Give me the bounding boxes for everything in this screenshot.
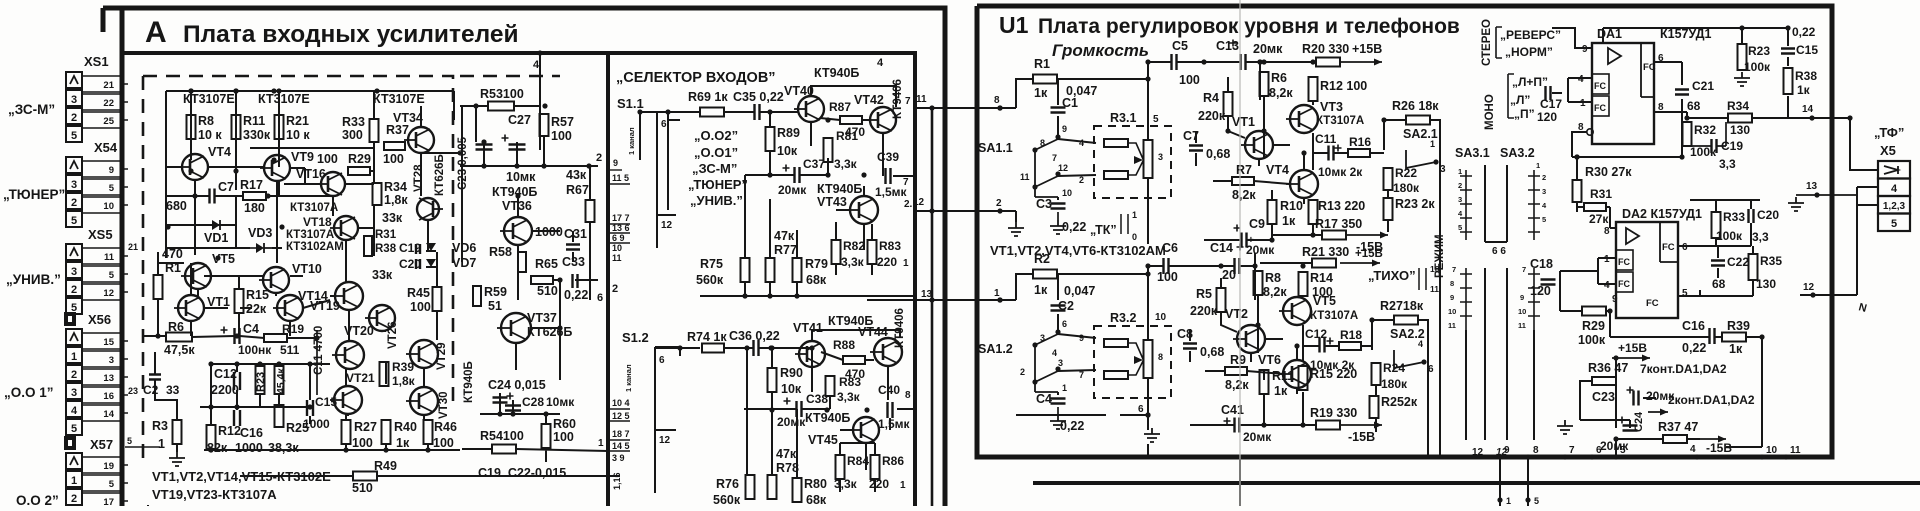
label KT940B VT36 xyxy=(492,185,537,213)
label KT3102AM xyxy=(286,241,344,253)
svg-text:4: 4 xyxy=(533,59,540,71)
resistor R21 xyxy=(275,88,311,142)
svg-text:19: 19 xyxy=(103,461,114,472)
svg-text:R14: R14 xyxy=(1310,271,1333,285)
wire R34 row xyxy=(1603,28,1850,118)
svg-text:R78: R78 xyxy=(776,461,799,475)
wire selector mid xyxy=(745,112,915,250)
squiggle N xyxy=(1857,301,1868,315)
resistor R89 10k xyxy=(766,126,800,158)
capacitor C8 U1 xyxy=(1177,327,1224,359)
capacitor C15b xyxy=(1781,25,1818,57)
svg-text:С11 4700: С11 4700 xyxy=(313,326,325,375)
capacitor C7 U1 xyxy=(1183,129,1230,161)
note transistors list A xyxy=(152,469,331,484)
svg-text:С20: С20 xyxy=(399,257,421,271)
wire R69 C35 row xyxy=(640,112,798,160)
selector pin rows top xyxy=(608,158,630,263)
svg-text:R8: R8 xyxy=(1265,271,1281,285)
svg-text:„ЗС-М”: „ЗС-М” xyxy=(8,102,55,117)
svg-text:R20 330: R20 330 xyxy=(1302,42,1349,56)
svg-text:Х54: Х54 xyxy=(94,140,118,155)
svg-text:С24 0,015: С24 0,015 xyxy=(488,378,546,392)
switch SA1.1 label xyxy=(978,141,1013,155)
svg-text:VD1: VD1 xyxy=(204,231,228,245)
svg-text:12: 12 xyxy=(1472,447,1484,458)
svg-text:VT30: VT30 xyxy=(438,392,450,420)
svg-text:120: 120 xyxy=(1530,284,1551,298)
board A title xyxy=(145,16,519,49)
svg-text:2200: 2200 xyxy=(211,383,239,397)
svg-text:4: 4 xyxy=(1891,183,1898,195)
pin 6 xyxy=(597,292,603,304)
svg-text:С2: С2 xyxy=(143,383,159,397)
svg-text:FC: FC xyxy=(1646,298,1659,309)
svg-text:12: 12 xyxy=(1803,282,1815,293)
svg-text:1: 1 xyxy=(1604,254,1610,265)
wire VT9 base rail xyxy=(166,139,374,184)
svg-text:FC: FC xyxy=(1594,81,1606,91)
svg-text:10к: 10к xyxy=(781,382,802,396)
svg-text:11: 11 xyxy=(1518,321,1526,330)
transistor VT9 xyxy=(260,150,314,181)
svg-text:7: 7 xyxy=(1052,153,1057,163)
svg-text:3,3: 3,3 xyxy=(1752,230,1769,244)
svg-text:4: 4 xyxy=(1578,74,1584,85)
arrow -15V 2 xyxy=(1340,422,1382,445)
svg-text:КТ3102АМ: КТ3102АМ xyxy=(286,241,344,253)
svg-text:1 канал: 1 канал xyxy=(627,127,636,155)
switch S1.1 body xyxy=(627,112,680,248)
resistor R29b 100k xyxy=(1578,307,1606,348)
connector XS5 xyxy=(66,227,128,314)
svg-text:„ЗС-М”: „ЗС-М” xyxy=(692,161,737,176)
svg-text:R34: R34 xyxy=(1727,99,1749,113)
wire VT6 area xyxy=(1205,346,1372,394)
svg-text:0,22: 0,22 xyxy=(1062,220,1086,234)
svg-text:„СЕЛЕКТОР ВХОДОВ”: „СЕЛЕКТОР ВХОДОВ” xyxy=(616,70,776,86)
rotated label STEREO xyxy=(1481,19,1493,66)
svg-text:9: 9 xyxy=(1520,293,1524,302)
svg-text:R3.1: R3.1 xyxy=(1110,111,1136,125)
svg-text:7: 7 xyxy=(1569,445,1575,456)
svg-text:R16: R16 xyxy=(1349,135,1371,149)
svg-text:1: 1 xyxy=(1580,98,1586,109)
svg-text:1к: 1к xyxy=(396,436,410,450)
resistor R83 220 xyxy=(868,239,902,269)
capacitor C12 xyxy=(211,367,240,397)
transistor VT4 xyxy=(178,145,231,180)
label TK xyxy=(1090,210,1137,242)
wire selector lower mid xyxy=(744,348,915,470)
svg-text:15: 15 xyxy=(103,337,114,348)
svg-text:С4: С4 xyxy=(243,322,259,336)
ground SA1.1 xyxy=(1050,220,1066,234)
svg-text:„ТЮНЕР”: „ТЮНЕР” xyxy=(688,177,748,192)
svg-text:„Л”: „Л” xyxy=(1510,93,1530,107)
svg-text:3 9: 3 9 xyxy=(612,453,625,463)
board A parallel vertical line xyxy=(931,108,934,506)
border pin 5 xyxy=(127,436,132,446)
svg-text:220к: 220к xyxy=(1190,304,1218,318)
svg-text:21: 21 xyxy=(103,80,114,91)
svg-text:R89: R89 xyxy=(777,126,800,140)
resistor R3 1 xyxy=(152,419,182,451)
svg-text:SA1.2: SA1.2 xyxy=(978,342,1013,356)
svg-text:+15В: +15В xyxy=(1355,248,1383,260)
transistor VT41 xyxy=(793,321,825,367)
svg-text:FC: FC xyxy=(1594,103,1606,113)
svg-text:КТ3107А: КТ3107А xyxy=(290,202,338,214)
svg-text:R88: R88 xyxy=(833,338,855,352)
diode VD3 xyxy=(248,226,272,253)
svg-text:R57: R57 xyxy=(551,115,574,129)
opamp DA1 box xyxy=(1592,43,1656,144)
svg-text:6: 6 xyxy=(1062,319,1067,329)
svg-text:7конт.DA1,DA2: 7конт.DA1,DA2 xyxy=(1640,362,1727,376)
svg-text:21: 21 xyxy=(128,242,138,252)
svg-text:С9: С9 xyxy=(1249,217,1265,231)
svg-text:25: 25 xyxy=(103,116,114,127)
svg-text:5: 5 xyxy=(109,183,115,194)
svg-text:100: 100 xyxy=(551,129,572,143)
resistor R24 180k xyxy=(1372,361,1409,391)
resistor R69 1k xyxy=(688,90,728,117)
capacitor C24b xyxy=(1600,411,1645,453)
svg-text:4: 4 xyxy=(1079,138,1084,148)
resistor R32 100k xyxy=(1683,122,1718,159)
svg-text:5: 5 xyxy=(1542,215,1546,224)
switch SA3.1 label xyxy=(1455,146,1490,160)
wire cap row xyxy=(460,136,598,166)
resistor R60 100 xyxy=(542,417,576,448)
svg-text:7: 7 xyxy=(1079,370,1084,380)
svg-text:Х56: Х56 xyxy=(88,312,111,327)
svg-text:R39: R39 xyxy=(392,360,414,374)
resistor R11 1k xyxy=(1260,369,1295,398)
resistor R27 18k xyxy=(1380,299,1424,325)
pins DA1 xyxy=(1578,44,1664,133)
svg-text:Х5: Х5 xyxy=(1880,143,1896,158)
transistor VT1 U1 xyxy=(1232,115,1273,159)
capacitor C2 33 xyxy=(143,375,180,398)
svg-text:R25: R25 xyxy=(286,421,309,435)
svg-text:11: 11 xyxy=(104,252,115,263)
svg-text:9: 9 xyxy=(109,165,114,176)
resistor R23b 100k xyxy=(1738,25,1772,74)
label 33k xyxy=(382,211,403,225)
label 10mk xyxy=(506,170,536,184)
label KT940B VT43 xyxy=(817,182,862,209)
svg-text:3: 3 xyxy=(1158,152,1163,162)
wire selector bottom xyxy=(747,348,875,492)
label VD6 VD7 xyxy=(452,241,476,270)
svg-text:20: 20 xyxy=(1222,268,1236,282)
svg-text:КТ3107А: КТ3107А xyxy=(1310,310,1358,322)
resistor R10 1k xyxy=(1268,199,1303,228)
svg-text:С27: С27 xyxy=(508,113,531,127)
wire DA2 net xyxy=(1678,200,1760,296)
svg-text:С13: С13 xyxy=(1216,39,1239,53)
resistor R6 xyxy=(164,320,195,357)
svg-text:VT2: VT2 xyxy=(1225,307,1248,321)
wire selector resistors xyxy=(700,175,915,296)
svg-text:3: 3 xyxy=(71,179,77,191)
svg-text:R252к: R252к xyxy=(1381,395,1418,409)
capacitor C28 10mk xyxy=(505,393,575,411)
svg-text:5: 5 xyxy=(1682,288,1688,299)
svg-text:68к: 68к xyxy=(806,493,827,506)
wire crease line xyxy=(1239,0,1241,506)
connector XS6 xyxy=(66,312,128,435)
svg-text:„О.О1”: „О.О1” xyxy=(694,145,738,160)
svg-text:R90: R90 xyxy=(780,366,803,380)
pin 2 right xyxy=(586,152,602,169)
resistor R15 22k xyxy=(235,288,269,316)
svg-text:2: 2 xyxy=(1079,175,1084,185)
svg-text:0,22: 0,22 xyxy=(1682,341,1706,355)
svg-text:„ТИХО”: „ТИХО” xyxy=(1368,268,1416,283)
svg-text:27к: 27к xyxy=(1589,212,1609,226)
svg-text:С6: С6 xyxy=(1162,241,1178,255)
svg-text:8,2к: 8,2к xyxy=(1225,378,1249,392)
volume label Громкость xyxy=(1052,41,1149,60)
svg-text:68к: 68к xyxy=(806,273,827,287)
svg-text:+15В: +15В xyxy=(1618,341,1647,355)
capacitor C27 electrolytic xyxy=(476,113,531,150)
svg-text:-15В: -15В xyxy=(1348,430,1375,444)
note transistors list A2 xyxy=(152,487,277,502)
resistor R49 510 xyxy=(352,459,397,495)
junction dots U1 xyxy=(997,59,1852,441)
capacitor C33 xyxy=(562,255,588,302)
svg-text:1к: 1к xyxy=(1729,342,1743,356)
switch SA3.1 long wires xyxy=(1485,165,1507,242)
resistor R25 2k xyxy=(1370,395,1418,418)
svg-text:R80: R80 xyxy=(804,477,827,491)
svg-text:5: 5 xyxy=(1620,445,1626,456)
svg-text:VT4: VT4 xyxy=(208,145,231,159)
transistor VT26 xyxy=(365,305,399,349)
switch SA2.2 xyxy=(1390,327,1434,375)
svg-text:С16: С16 xyxy=(1682,319,1705,333)
wire SA22 col xyxy=(1372,320,1428,457)
svg-text:33к: 33к xyxy=(382,211,403,225)
wire VT1 VT10 mesh xyxy=(158,252,349,341)
ground 13 xyxy=(1788,197,1804,211)
resistor R17 350 xyxy=(1315,217,1362,240)
svg-text:100к: 100к xyxy=(1716,229,1743,243)
svg-text:VT4: VT4 xyxy=(1266,163,1289,177)
switch SA1.2 contacts xyxy=(1020,319,1084,393)
svg-text:R87: R87 xyxy=(829,100,851,114)
svg-text:68: 68 xyxy=(1712,277,1726,291)
svg-text:VD7: VD7 xyxy=(452,256,476,270)
ground psu xyxy=(1557,420,1573,434)
svg-text:О.О 2”: О.О 2” xyxy=(16,493,59,506)
svg-text:68: 68 xyxy=(1687,99,1701,113)
label KT3107A a xyxy=(290,202,338,214)
svg-text:2: 2 xyxy=(1458,181,1462,190)
svg-text:51: 51 xyxy=(488,299,502,313)
resistor R26 18k xyxy=(1392,99,1439,125)
svg-text:130: 130 xyxy=(1730,123,1750,137)
resistor R34 1.8k xyxy=(373,180,409,207)
svg-text:С3: С3 xyxy=(1036,197,1052,211)
svg-text:1: 1 xyxy=(598,438,604,449)
svg-text:5: 5 xyxy=(1534,496,1539,506)
wire lower mesh left xyxy=(200,364,460,450)
svg-text:С28: С28 xyxy=(522,395,544,409)
pin 5 stub xyxy=(125,446,160,448)
svg-text:100к: 100к xyxy=(1690,145,1717,159)
label R3.1 xyxy=(1110,111,1136,125)
capacitor C4 xyxy=(221,322,273,357)
wire DA1 out pins xyxy=(1654,62,1687,157)
svg-text:DA2 К157УД1: DA2 К157УД1 xyxy=(1622,207,1702,221)
wire VT2 VT5 mesh xyxy=(1190,278,1303,362)
wire C7 R17 row xyxy=(166,180,333,196)
svg-text:С5: С5 xyxy=(1172,39,1188,53)
svg-text:С15: С15 xyxy=(315,395,337,409)
svg-text:R2718к: R2718к xyxy=(1380,299,1424,313)
svg-text:33: 33 xyxy=(166,383,180,397)
capacitor C2 U1 xyxy=(1051,306,1066,311)
resistor R6 U1 xyxy=(1260,71,1294,100)
svg-text:СТЕРЕО: СТЕРЕО xyxy=(1481,19,1493,66)
svg-text:4: 4 xyxy=(1418,339,1423,349)
svg-text:Громкость: Громкость xyxy=(1052,41,1149,60)
svg-text:470: 470 xyxy=(162,247,183,261)
svg-text:SA3.1: SA3.1 xyxy=(1455,146,1490,160)
arrow +15V 2 xyxy=(1340,248,1383,267)
wire DA1 left pins xyxy=(1552,28,1682,157)
svg-text:R7: R7 xyxy=(1236,163,1252,177)
svg-text:С37: С37 xyxy=(803,157,825,171)
switch SA3.2 ladder xyxy=(1528,161,1547,240)
svg-text:43к: 43к xyxy=(566,168,587,182)
svg-text:„О.О2”: „О.О2” xyxy=(694,128,738,143)
svg-text:560к: 560к xyxy=(696,273,724,287)
resistor R88 470 xyxy=(833,338,865,381)
svg-text:3,3к: 3,3к xyxy=(834,477,858,491)
transistor VT37 xyxy=(497,311,572,343)
resistor R8b xyxy=(1254,271,1288,299)
svg-text:0,68: 0,68 xyxy=(1200,345,1224,359)
svg-text:5: 5 xyxy=(71,215,77,227)
svg-text:С7: С7 xyxy=(218,180,234,194)
resistor R54 100 xyxy=(480,429,604,454)
svg-text:R33: R33 xyxy=(342,115,365,129)
svg-text:R23 2к: R23 2к xyxy=(1395,197,1435,211)
svg-text:10: 10 xyxy=(1448,307,1456,316)
pins 2 12 mid wire xyxy=(904,197,935,214)
svg-text:1,8к: 1,8к xyxy=(384,193,408,207)
svg-text:8: 8 xyxy=(994,95,1000,106)
svg-text:2: 2 xyxy=(1020,367,1025,377)
svg-text:1,5мк: 1,5мк xyxy=(878,417,911,431)
svg-text:VT41: VT41 xyxy=(793,321,823,335)
resistor R14 100 xyxy=(1299,271,1333,299)
svg-text:R3: R3 xyxy=(152,419,168,433)
arrow +15V right xyxy=(1612,341,1650,362)
svg-text:680: 680 xyxy=(166,199,187,213)
svg-text:33к: 33к xyxy=(372,268,393,282)
label 2kont xyxy=(1668,393,1755,407)
svg-text:0,22: 0,22 xyxy=(564,288,588,302)
pin 1 U1 entry xyxy=(994,288,1003,303)
svg-text:S1.1: S1.1 xyxy=(617,96,644,111)
svg-text:R23: R23 xyxy=(255,372,267,392)
resistor R84 3.3k xyxy=(834,454,869,491)
svg-text:12: 12 xyxy=(913,197,925,208)
resistor R33 xyxy=(342,115,379,142)
resistor R12 100 xyxy=(1309,77,1368,101)
svg-text:11: 11 xyxy=(1430,284,1439,294)
svg-text:R39: R39 xyxy=(1727,319,1750,333)
svg-text:130: 130 xyxy=(1756,277,1776,291)
svg-text:20мк: 20мк xyxy=(1253,42,1283,56)
svg-text:220: 220 xyxy=(869,477,889,491)
svg-text:11: 11 xyxy=(1448,321,1456,330)
svg-text:VT19,VT23-КТ3107А: VT19,VT23-КТ3107А xyxy=(152,487,277,502)
svg-text:3,3к: 3,3к xyxy=(837,390,861,404)
switch SA3.2 label xyxy=(1500,146,1535,160)
wire SA1.2 links xyxy=(1058,274,1096,395)
connector X54 xyxy=(66,140,128,227)
svg-text:9: 9 xyxy=(1062,124,1067,134)
svg-text:Плата регулировок уровня и тел: Плата регулировок уровня и телефонов xyxy=(1038,15,1460,38)
svg-text:2: 2 xyxy=(71,112,77,124)
transistor VT19 xyxy=(310,282,363,313)
label R38 small xyxy=(375,243,397,255)
switch SA3 lower ladder 2 xyxy=(1518,265,1540,330)
resistor R45 100 xyxy=(407,286,442,314)
svg-text:9: 9 xyxy=(1504,445,1510,456)
resistor R23 2k xyxy=(1384,197,1436,220)
svg-text:R67: R67 xyxy=(566,183,589,197)
resistor R1 470 xyxy=(154,247,183,299)
svg-text:R9: R9 xyxy=(1230,353,1246,367)
label C18 120 xyxy=(1530,257,1556,298)
svg-text:VT1: VT1 xyxy=(1232,115,1255,129)
label DA1 xyxy=(1597,27,1622,41)
svg-text:1к: 1к xyxy=(1274,384,1288,398)
switch SA3.1 ladder xyxy=(1458,167,1472,240)
resistor R30 xyxy=(1573,154,1582,202)
ground under R3 xyxy=(169,452,185,466)
lower board frame xyxy=(1033,481,1920,485)
resistor R90 10k xyxy=(768,366,803,396)
wire bottom verticals lower board xyxy=(1500,483,1528,506)
svg-text:1,8к: 1,8к xyxy=(392,374,416,388)
wire SA1.1 links xyxy=(1058,79,1096,200)
svg-text:7: 7 xyxy=(905,96,911,107)
svg-text:R77: R77 xyxy=(774,243,797,257)
svg-text:FC: FC xyxy=(1618,257,1630,267)
wire psu cluster xyxy=(1580,358,1700,457)
svg-text:VT20: VT20 xyxy=(344,324,374,338)
selector title xyxy=(616,70,776,86)
label KT940B 2 xyxy=(828,314,873,328)
svg-text:С14: С14 xyxy=(1210,241,1233,255)
wire VT1 VT3 mesh xyxy=(1196,77,1313,170)
svg-text:4: 4 xyxy=(1052,348,1057,358)
svg-text:R65: R65 xyxy=(535,257,558,271)
selector input names xyxy=(688,128,748,208)
svg-text:VT5: VT5 xyxy=(212,252,235,266)
svg-text:R23: R23 xyxy=(1748,44,1770,58)
